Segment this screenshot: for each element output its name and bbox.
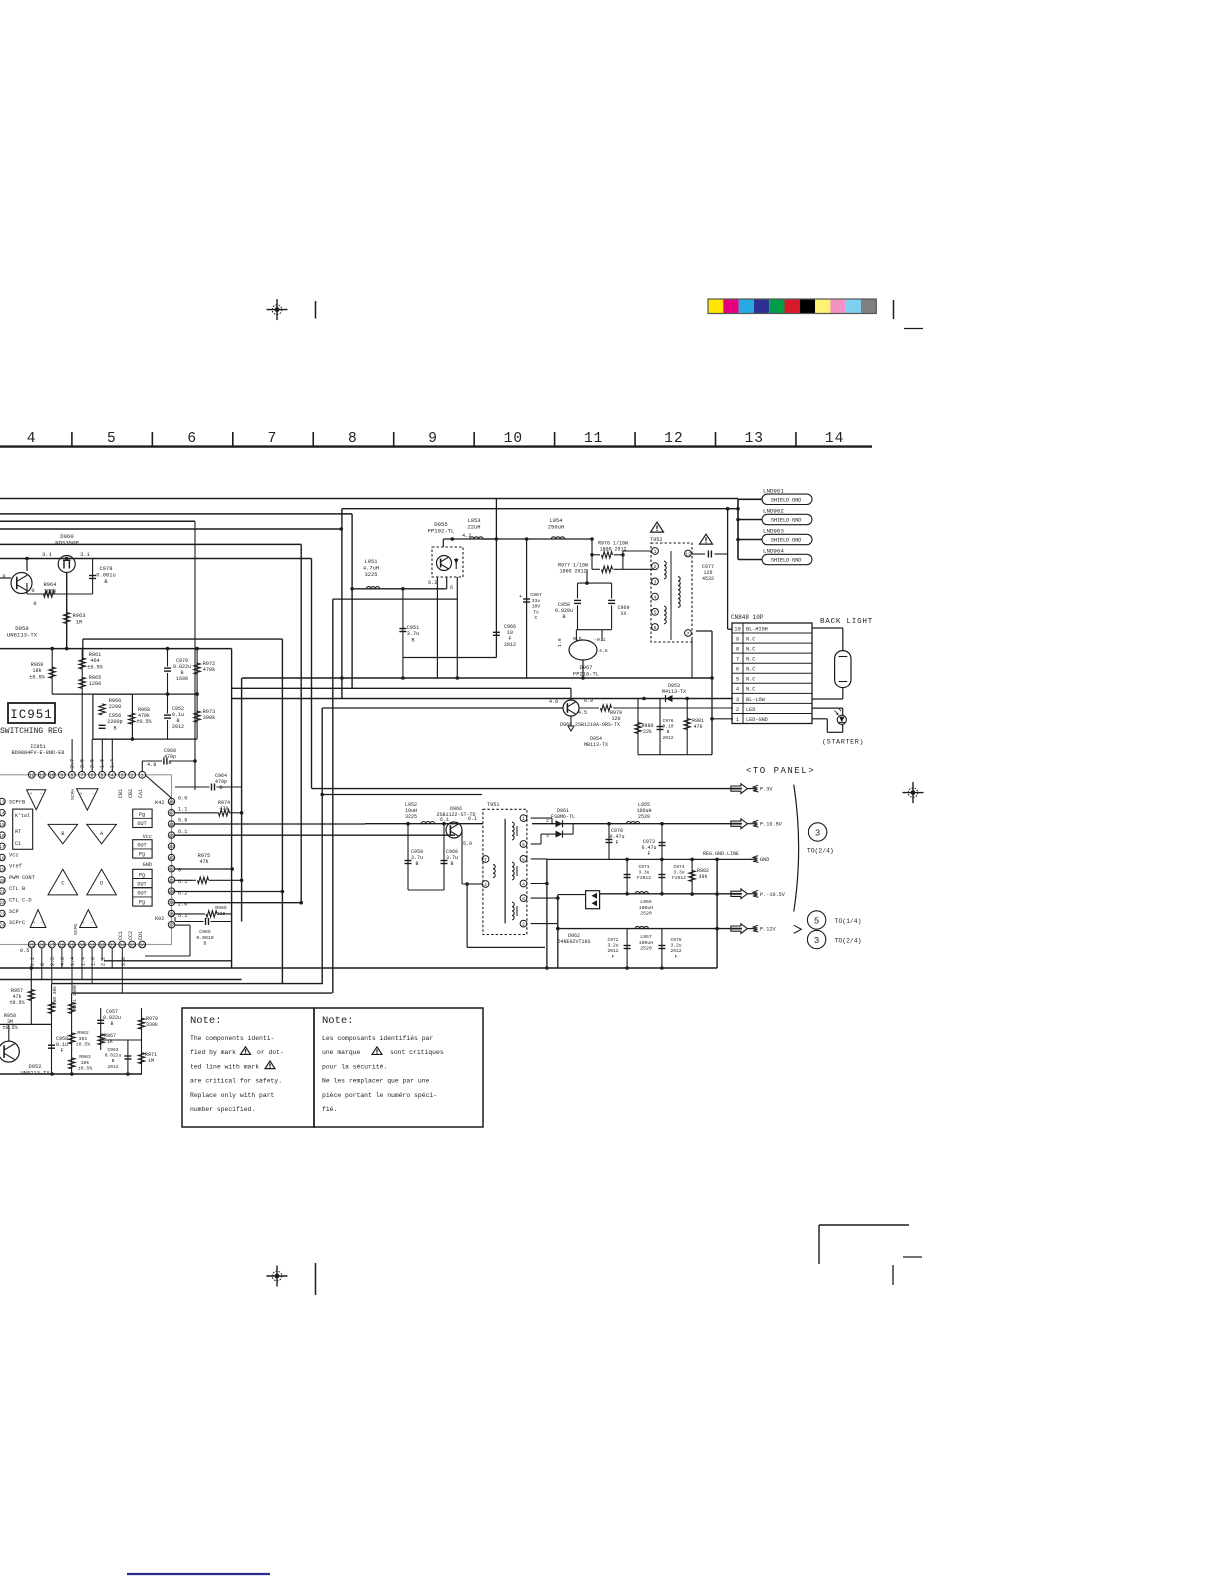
- svg-text:T952: T952: [650, 537, 662, 543]
- svg-text:B: B: [415, 861, 418, 867]
- svg-text:B: B: [61, 831, 64, 837]
- svg-text:CD1: CD1: [138, 931, 144, 940]
- svg-text:44: 44: [169, 844, 175, 850]
- svg-text:The components identi-: The components identi-: [190, 1035, 274, 1042]
- svg-text:N.C: N.C: [746, 636, 755, 642]
- svg-text:SCPrB: SCPrB: [9, 800, 26, 806]
- svg-text:F: F: [60, 1048, 63, 1054]
- svg-text:2012: 2012: [670, 948, 681, 954]
- svg-text:11: 11: [584, 431, 603, 447]
- svg-text:NDS356P: NDS356P: [55, 540, 79, 547]
- svg-text:39k: 39k: [698, 874, 707, 880]
- svg-text:22k: 22k: [643, 729, 652, 735]
- svg-text:2: 2: [736, 707, 739, 713]
- svg-text:3: 3: [815, 829, 820, 839]
- svg-text:Vref: Vref: [9, 864, 22, 870]
- svg-text:2.5: 2.5: [80, 759, 86, 768]
- svg-text:CA1: CA1: [138, 789, 144, 798]
- svg-text:+: +: [82, 921, 85, 926]
- svg-text:C976: C976: [662, 718, 673, 724]
- svg-text:±0.5%: ±0.5%: [2, 1025, 17, 1031]
- svg-text:CTL C-D: CTL C-D: [9, 898, 32, 904]
- svg-text:D4NE02VT10S: D4NE02VT10S: [557, 939, 590, 945]
- svg-text:1R: 1R: [76, 619, 83, 625]
- svg-text:17: 17: [0, 844, 5, 850]
- svg-text:4.9: 4.9: [549, 699, 558, 705]
- svg-text:F: F: [675, 954, 678, 960]
- svg-text:CN848 10P: CN848 10P: [731, 614, 764, 621]
- svg-text:3.3u: 3.3u: [638, 870, 649, 876]
- svg-text:GND: GND: [760, 857, 769, 863]
- svg-text:Note:: Note:: [322, 1015, 354, 1027]
- svg-text:±0.5%: ±0.5%: [78, 1066, 93, 1072]
- svg-text:UN8113-TX: UN8113-TX: [7, 632, 38, 639]
- svg-text:C967: C967: [530, 592, 542, 598]
- svg-text:R961: R961: [89, 652, 101, 658]
- svg-text:0: 0: [40, 963, 46, 966]
- svg-text:C975: C975: [670, 937, 681, 943]
- svg-text:±0.5%: ±0.5%: [29, 674, 45, 680]
- svg-text:2.2: 2.2: [30, 957, 36, 966]
- svg-text:2: 2: [654, 564, 657, 570]
- svg-text:6.2: 6.2: [428, 580, 437, 586]
- svg-text:0.1: 0.1: [468, 816, 477, 822]
- svg-text:-: -: [41, 921, 44, 926]
- svg-text:B: B: [112, 1058, 115, 1064]
- svg-text:OUT: OUT: [137, 881, 146, 887]
- svg-text:LND963: LND963: [763, 528, 784, 535]
- svg-text:R964: R964: [44, 582, 57, 588]
- svg-text:5.9: 5.9: [463, 841, 472, 847]
- svg-text:15: 15: [0, 822, 5, 828]
- svg-text:2012: 2012: [607, 948, 618, 954]
- svg-text:470k: 470k: [203, 667, 215, 673]
- svg-text:Les composants identifiés par: Les composants identifiés par: [322, 1035, 433, 1042]
- svg-text:K42: K42: [155, 800, 164, 806]
- svg-text:2.5: 2.5: [50, 957, 56, 966]
- svg-text:1608: 1608: [176, 676, 188, 682]
- svg-text:0.10: 0.10: [662, 724, 673, 730]
- svg-text:6: 6: [522, 842, 525, 848]
- svg-text:BD9884FV-E-8ND-E8: BD9884FV-E-8ND-E8: [12, 750, 65, 756]
- svg-text:2520: 2520: [638, 814, 650, 820]
- svg-text:0.001u: 0.001u: [96, 572, 115, 578]
- svg-text:9: 9: [428, 431, 438, 447]
- svg-text:C963: C963: [107, 1047, 118, 1053]
- svg-text:3.1: 3.1: [42, 552, 52, 558]
- svg-text:P.10.5V: P.10.5V: [760, 822, 783, 828]
- svg-text:5: 5: [654, 610, 657, 616]
- svg-text:5: 5: [101, 773, 104, 779]
- svg-text:5.9: 5.9: [178, 818, 187, 824]
- svg-text:CC2: CC2: [128, 931, 134, 940]
- svg-text:SHIELD GND: SHIELD GND: [771, 538, 801, 544]
- svg-text:LND964: LND964: [763, 548, 784, 555]
- svg-text:B: B: [219, 785, 222, 791]
- svg-text:3: 3: [814, 936, 819, 946]
- svg-text:1.4: 1.4: [70, 957, 76, 966]
- svg-text:SWITCHING REG: SWITCHING REG: [0, 727, 63, 736]
- svg-text:12: 12: [664, 431, 683, 447]
- svg-text:XX: XX: [620, 611, 626, 617]
- svg-text:34: 34: [119, 942, 125, 948]
- svg-text:47k: 47k: [199, 859, 208, 865]
- svg-text:C974: C974: [673, 864, 684, 870]
- svg-text:9: 9: [736, 636, 739, 642]
- svg-text:3.7u: 3.7u: [407, 631, 419, 637]
- svg-text:K'tal: K'tal: [15, 813, 30, 819]
- svg-text:REG.GND.LINE: REG.GND.LINE: [703, 851, 739, 857]
- svg-text:3.2u: 3.2u: [670, 943, 681, 949]
- svg-text:250uH: 250uH: [548, 524, 564, 530]
- svg-text:1.0: 1.0: [557, 638, 563, 647]
- svg-text:pour la sécurité.: pour la sécurité.: [322, 1063, 387, 1070]
- svg-text:D967: D967: [580, 665, 593, 671]
- svg-text:33u: 33u: [532, 598, 541, 604]
- svg-text:±0.5%: ±0.5%: [87, 664, 103, 670]
- svg-text:BL-LOW: BL-LOW: [746, 697, 766, 703]
- svg-text:4: 4: [736, 687, 739, 693]
- svg-text:100k: 100k: [44, 588, 57, 594]
- svg-text:42: 42: [169, 867, 175, 873]
- svg-text:6: 6: [736, 667, 739, 673]
- svg-text:R969: R969: [31, 662, 43, 668]
- svg-text:OUT: OUT: [137, 821, 146, 827]
- svg-text:3.3u: 3.3u: [673, 870, 684, 876]
- svg-text:N.C: N.C: [746, 667, 755, 673]
- svg-text:3225: 3225: [405, 814, 417, 820]
- svg-text:BL-HIGH: BL-HIGH: [746, 626, 768, 632]
- svg-text:470: 470: [693, 724, 702, 730]
- svg-text:4: 4: [654, 595, 657, 601]
- svg-text:8: 8: [348, 431, 358, 447]
- svg-text:0.022u: 0.022u: [105, 1053, 122, 1059]
- svg-text:IC951: IC951: [10, 708, 53, 722]
- svg-text:4.6: 4.6: [60, 957, 66, 966]
- svg-text:Vcc: Vcc: [9, 853, 19, 859]
- svg-text:330k: 330k: [146, 1022, 158, 1028]
- svg-text:Replace only with part: Replace only with part: [190, 1092, 275, 1099]
- svg-text:28: 28: [59, 942, 65, 948]
- svg-text:L953: L953: [468, 518, 481, 524]
- svg-text:7: 7: [268, 431, 278, 447]
- svg-text:F2012: F2012: [637, 875, 651, 881]
- svg-text:3225: 3225: [365, 572, 378, 578]
- svg-text:45: 45: [169, 833, 175, 839]
- svg-text:B: B: [204, 941, 207, 947]
- svg-text:RT: RT: [15, 829, 21, 835]
- svg-text:R963: R963: [79, 1054, 91, 1060]
- svg-text:CB2: CB2: [128, 789, 134, 798]
- svg-text:41: 41: [169, 878, 175, 884]
- svg-text:20: 20: [0, 878, 5, 884]
- svg-text:LND961: LND961: [763, 488, 784, 495]
- svg-text:B: B: [562, 614, 565, 620]
- svg-text:4: 4: [522, 881, 525, 887]
- svg-text:OUT: OUT: [137, 891, 146, 897]
- svg-text:P.-10.5V: P.-10.5V: [760, 892, 786, 898]
- svg-text:R963: R963: [73, 613, 86, 619]
- svg-text:M4113-TX: M4113-TX: [662, 689, 686, 695]
- svg-text:1200: 1200: [89, 681, 101, 687]
- svg-text:6: 6: [450, 585, 453, 591]
- svg-text:7: 7: [81, 773, 84, 779]
- svg-text:D: D: [100, 881, 103, 887]
- svg-text:Pg: Pg: [139, 852, 145, 858]
- svg-text:are critical for safety.: are critical for safety.: [190, 1078, 282, 1085]
- svg-text:3.2u: 3.2u: [607, 943, 618, 949]
- svg-text:R965: R965: [89, 675, 101, 681]
- svg-text:3: 3: [121, 773, 124, 779]
- svg-text:5: 5: [814, 917, 819, 927]
- svg-text:32: 32: [99, 942, 105, 948]
- svg-text:1: 1: [522, 816, 525, 822]
- svg-text:TO(2/4): TO(2/4): [835, 938, 862, 945]
- svg-text:C978: C978: [100, 566, 113, 572]
- svg-text:6.1: 6.1: [178, 829, 187, 835]
- svg-text:40: 40: [169, 889, 175, 895]
- svg-text:220: 220: [217, 911, 226, 917]
- svg-text:0.0010: 0.0010: [196, 935, 213, 941]
- svg-text:23: 23: [0, 911, 5, 917]
- svg-text:35: 35: [129, 942, 135, 948]
- svg-text:390k: 390k: [203, 715, 215, 721]
- svg-text:464: 464: [90, 658, 99, 664]
- svg-text:Ne les remplacer que par une: Ne les remplacer que par une: [322, 1078, 430, 1085]
- svg-text:SCPrC: SCPrC: [9, 920, 25, 926]
- svg-text:2012: 2012: [662, 735, 673, 741]
- svg-text:6.0: 6.0: [178, 796, 187, 802]
- svg-text:8: 8: [736, 647, 739, 653]
- svg-text:L954: L954: [550, 518, 563, 524]
- svg-text:±0.5%: ±0.5%: [136, 719, 151, 725]
- svg-text:TO(2/4): TO(2/4): [807, 848, 834, 855]
- svg-text:Vcc: Vcc: [143, 834, 152, 840]
- svg-text:21: 21: [0, 889, 5, 895]
- svg-text:L951: L951: [365, 559, 378, 565]
- svg-text:B: B: [667, 729, 670, 735]
- svg-text:SHIELD GND: SHIELD GND: [771, 498, 801, 504]
- svg-text:P.3V: P.3V: [760, 787, 773, 793]
- svg-text:MB113-TX: MB113-TX: [584, 742, 608, 748]
- svg-text:7: 7: [736, 657, 739, 663]
- svg-text:8: 8: [522, 896, 525, 902]
- svg-text:0: 0: [31, 588, 34, 594]
- svg-text:0.5: 0.5: [20, 948, 29, 954]
- svg-text:Pg: Pg: [139, 900, 145, 906]
- svg-text:2012: 2012: [107, 1064, 118, 1070]
- svg-text:36: 36: [139, 942, 145, 948]
- svg-text:SCP: SCP: [9, 909, 19, 915]
- svg-text:14: 14: [825, 431, 844, 447]
- svg-text:4: 4: [111, 773, 114, 779]
- svg-text:IC951: IC951: [30, 744, 46, 750]
- svg-text:R962: R962: [77, 1030, 89, 1036]
- svg-text:L957: L957: [640, 934, 652, 940]
- svg-text:2200p: 2200p: [107, 719, 123, 725]
- svg-text:4532: 4532: [702, 576, 714, 582]
- svg-text:18: 18: [0, 855, 5, 861]
- svg-text:33: 33: [109, 942, 115, 948]
- svg-text:10: 10: [49, 773, 55, 779]
- svg-text:+: +: [80, 792, 83, 797]
- svg-text:CB1: CB1: [118, 789, 124, 798]
- svg-text:10: 10: [734, 626, 740, 632]
- svg-text:number specified.: number specified.: [190, 1106, 255, 1113]
- svg-text:B: B: [411, 637, 414, 643]
- svg-text:27: 27: [49, 942, 55, 948]
- svg-text:12: 12: [29, 773, 35, 779]
- svg-text:FP102-TL: FP102-TL: [428, 528, 455, 535]
- svg-text:5: 5: [736, 677, 739, 683]
- svg-text:N.C: N.C: [746, 657, 755, 663]
- svg-text:6: 6: [654, 625, 657, 631]
- svg-text:4: 4: [27, 431, 37, 447]
- svg-text:R965: R965: [215, 905, 227, 911]
- svg-text:24: 24: [0, 923, 5, 929]
- svg-text:6: 6: [91, 773, 94, 779]
- svg-text:48: 48: [169, 799, 175, 805]
- svg-text:N.C: N.C: [746, 677, 755, 683]
- svg-text:8: 8: [71, 773, 74, 779]
- svg-text:R960 20k: R960 20k: [52, 986, 58, 1008]
- svg-text:10V: 10V: [532, 604, 541, 610]
- svg-text:43: 43: [169, 855, 175, 861]
- svg-text:470: 470: [219, 806, 228, 812]
- svg-text:LED: LED: [746, 707, 755, 713]
- svg-text:R972: R972: [203, 661, 215, 667]
- svg-text:2.2: 2.2: [100, 957, 106, 966]
- svg-text:BACK LIGHT: BACK LIGHT: [820, 618, 873, 626]
- svg-text:F: F: [647, 851, 650, 857]
- svg-text:1: 1: [736, 717, 739, 723]
- svg-text:R961 1500: R961 1500: [72, 985, 78, 1010]
- svg-text:16: 16: [0, 833, 5, 839]
- svg-text:FS8M6-TL: FS8M6-TL: [551, 814, 575, 820]
- svg-text:7: 7: [484, 857, 487, 863]
- svg-text:100uH: 100uH: [639, 940, 654, 946]
- svg-text:2: 2: [546, 818, 549, 824]
- svg-text:ted line with mark: ted line with mark: [190, 1063, 259, 1070]
- svg-text:13: 13: [0, 799, 5, 805]
- svg-text:-0.1: -0.1: [594, 637, 606, 643]
- svg-text:pièce portant le numéro spéci-: pièce portant le numéro spéci-: [322, 1092, 437, 1099]
- svg-text:38: 38: [169, 911, 175, 917]
- svg-text:C: C: [61, 881, 64, 887]
- svg-text:-: -: [91, 921, 94, 926]
- svg-text:(STARTER): (STARTER): [822, 739, 864, 747]
- svg-text:K02: K02: [155, 916, 164, 922]
- svg-text:120: 120: [611, 716, 620, 722]
- svg-text:FP216-TL: FP216-TL: [573, 671, 599, 677]
- svg-text:1.4: 1.4: [80, 957, 86, 966]
- svg-text:B: B: [113, 725, 116, 731]
- svg-text:12: 12: [685, 551, 691, 557]
- svg-text:-: -: [92, 792, 95, 797]
- svg-text:LED-GND: LED-GND: [746, 717, 768, 723]
- svg-text:C956: C956: [109, 713, 121, 719]
- svg-text:5: 5: [107, 431, 117, 447]
- svg-text:1.1: 1.1: [178, 807, 187, 813]
- svg-text:2: 2: [131, 773, 134, 779]
- svg-text:T951: T951: [487, 802, 499, 808]
- svg-text:3: 3: [546, 833, 549, 839]
- svg-text:B: B: [110, 1021, 113, 1027]
- svg-text:25: 25: [29, 942, 35, 948]
- svg-text:2: 2: [522, 922, 525, 928]
- svg-text:2: 2: [484, 882, 487, 888]
- svg-text:GND: GND: [143, 862, 152, 868]
- svg-text:19: 19: [0, 867, 5, 873]
- svg-text:0.9: 0.9: [584, 698, 593, 704]
- svg-text:30: 30: [79, 942, 85, 948]
- svg-text:10: 10: [504, 431, 523, 447]
- svg-text:+: +: [33, 921, 36, 926]
- svg-text:22uH: 22uH: [468, 524, 481, 530]
- svg-text:P.12V: P.12V: [760, 927, 776, 933]
- svg-text:C972: C972: [607, 937, 618, 943]
- svg-text:R975: R975: [198, 853, 210, 859]
- svg-text:C951: C951: [407, 625, 419, 631]
- svg-text:391: 391: [79, 1036, 88, 1042]
- svg-text:5: 5: [522, 857, 525, 863]
- svg-text:Pg: Pg: [139, 812, 145, 818]
- svg-text:10k: 10k: [81, 1060, 90, 1066]
- svg-text:22: 22: [0, 900, 5, 906]
- svg-text:4.5: 4.5: [578, 710, 587, 716]
- svg-text:SCPH: SCPH: [70, 789, 76, 800]
- svg-text:4.5: 4.5: [599, 648, 608, 654]
- svg-text:N.C: N.C: [746, 687, 755, 693]
- svg-text:4.8: 4.8: [147, 762, 156, 768]
- svg-text:R966: R966: [109, 698, 121, 704]
- svg-text:29: 29: [69, 942, 75, 948]
- svg-text:2520: 2520: [640, 946, 652, 952]
- svg-text:F: F: [612, 954, 615, 960]
- svg-text:31: 31: [89, 942, 95, 948]
- svg-text:47: 47: [169, 811, 175, 817]
- svg-text:TA: TA: [533, 609, 539, 615]
- svg-text:0: 0: [33, 601, 36, 607]
- svg-text:PWM CONT: PWM CONT: [9, 875, 36, 881]
- svg-text:R973: R973: [203, 709, 215, 715]
- svg-text:C1: C1: [15, 841, 21, 847]
- svg-text:D952: D952: [29, 1064, 42, 1070]
- svg-text:±0.5%: ±0.5%: [76, 1042, 91, 1048]
- svg-text:or dot-: or dot-: [257, 1049, 284, 1056]
- svg-text:4.7uH: 4.7uH: [363, 565, 379, 571]
- svg-text:14: 14: [0, 811, 5, 817]
- svg-text:L956: L956: [640, 899, 652, 905]
- svg-text:9: 9: [2, 574, 5, 580]
- svg-text:3.1: 3.1: [80, 552, 90, 558]
- svg-text:B: B: [450, 861, 453, 867]
- svg-text:N.C: N.C: [746, 647, 755, 653]
- svg-text:F: F: [615, 840, 618, 846]
- svg-text:fied by mark: fied by mark: [190, 1049, 236, 1056]
- svg-text:1: 1: [654, 549, 657, 555]
- svg-text:1M: 1M: [148, 1058, 154, 1064]
- svg-text:Note:: Note:: [190, 1015, 222, 1027]
- svg-text:sont critiques: sont critiques: [390, 1049, 444, 1056]
- svg-text:Pg: Pg: [139, 872, 145, 878]
- svg-text:1.6: 1.6: [90, 957, 96, 966]
- svg-text:TO(1/4): TO(1/4): [835, 918, 862, 925]
- svg-text:9: 9: [60, 773, 63, 779]
- svg-text:46: 46: [169, 822, 175, 828]
- svg-text:C: C: [535, 615, 538, 621]
- svg-text:100uH: 100uH: [639, 905, 654, 911]
